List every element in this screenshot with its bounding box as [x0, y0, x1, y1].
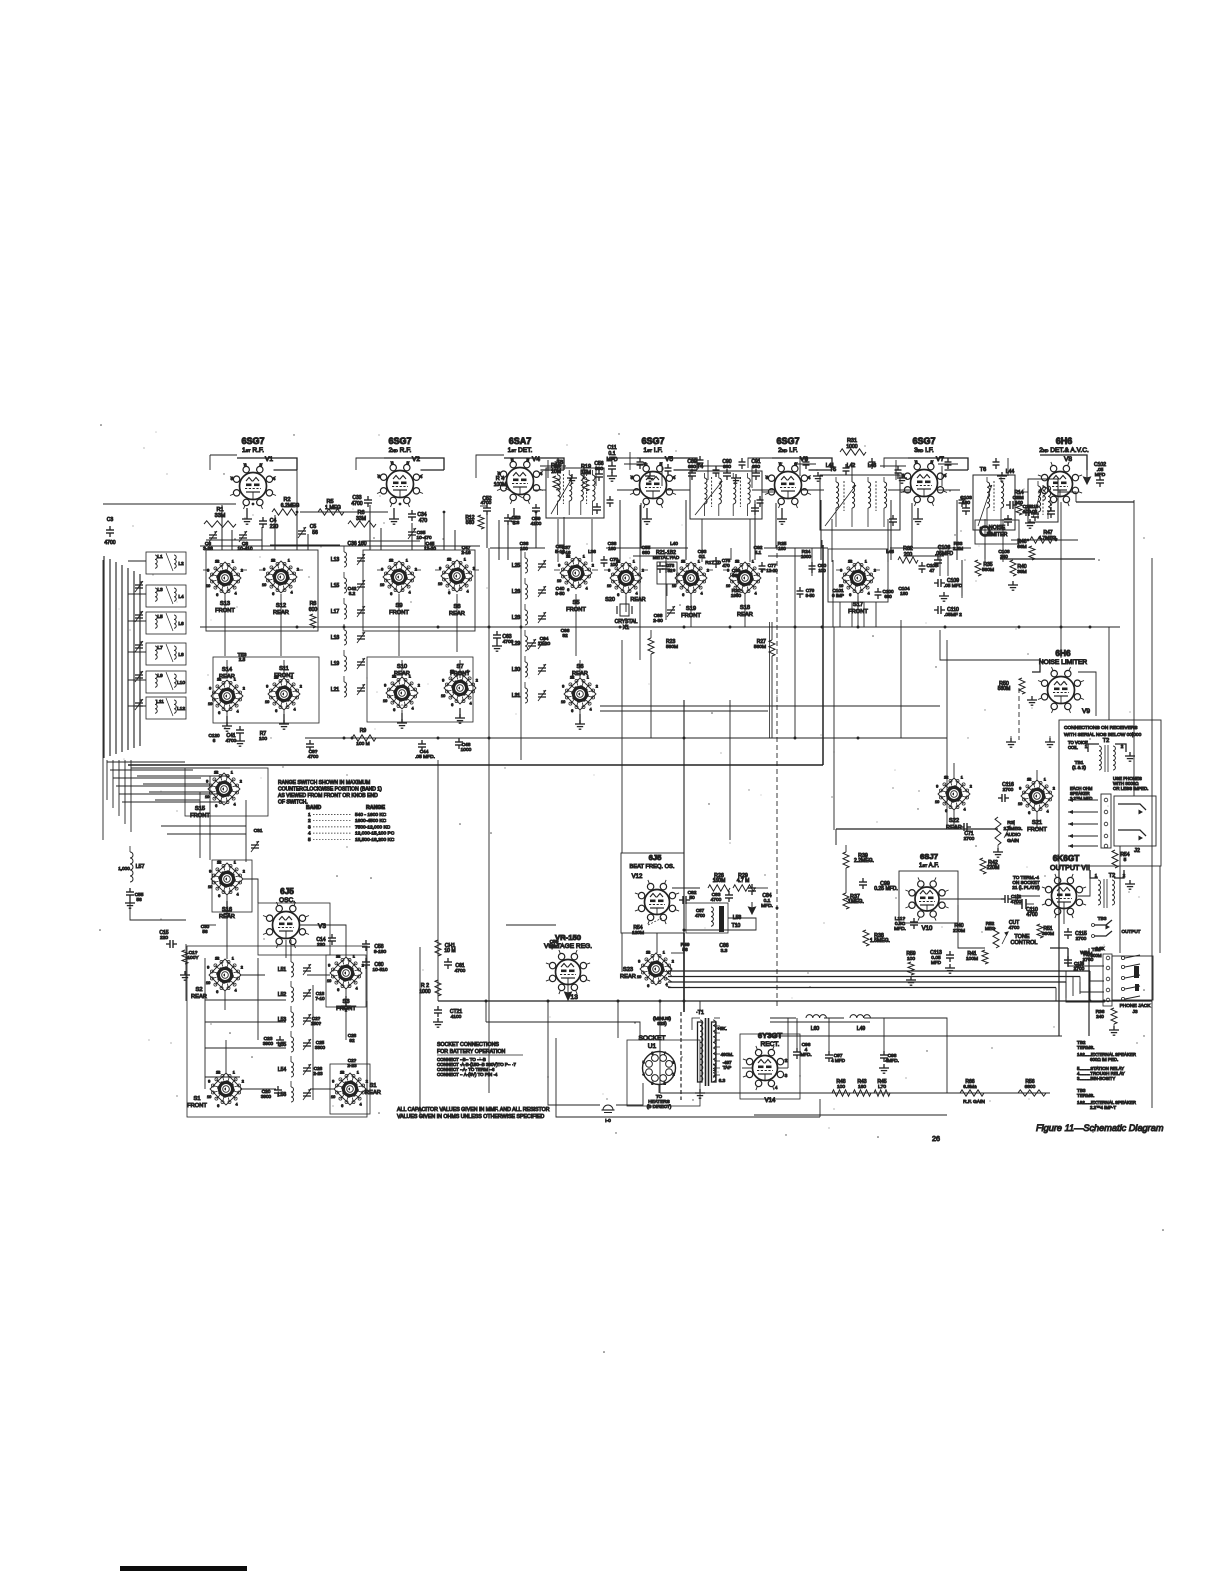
inductor pair L5 L6 [146, 612, 186, 634]
svg-text:S2: S2 [196, 987, 203, 993]
capacitor C15 220 [159, 930, 177, 948]
svg-text:2: 2 [1121, 744, 1124, 749]
svg-text:TERMS.: TERMS. [1077, 1093, 1094, 1098]
wire top rail [210, 455, 908, 478]
svg-text:56: 56 [682, 947, 688, 953]
capacitor C36 180 [347, 541, 366, 547]
capacitor C3 4700 [104, 517, 115, 546]
inductor labels L41 L42 L43 [826, 463, 877, 469]
svg-text:MFD.: MFD. [894, 926, 906, 932]
capacitor C97 4MFD [825, 1051, 846, 1063]
svg-text:L4: L4 [178, 594, 184, 600]
svg-text:BEAT FREQ. OS.: BEAT FREQ. OS. [630, 864, 675, 870]
capacitor C14 220 [316, 934, 336, 948]
svg-text:L1: L1 [157, 554, 163, 560]
svg-text:8: 8 [272, 558, 274, 562]
svg-text:0 IMP: 0 IMP [832, 593, 844, 598]
svg-text:CONTROL: CONTROL [1011, 940, 1038, 946]
svg-text:L11: L11 [156, 699, 164, 705]
svg-text:6: 6 [216, 990, 218, 994]
coil box RF stage 2 [363, 550, 475, 631]
svg-text:L25: L25 [512, 563, 521, 569]
wire AVC line [1011, 539, 1078, 542]
svg-text:FRONT: FRONT [187, 1103, 207, 1109]
capacitor C113 0.05 [930, 950, 955, 973]
capacitor trimmer near L52 [303, 989, 311, 1000]
svg-text:100: 100 [907, 956, 915, 962]
resistor R56 6800 [1018, 1079, 1046, 1096]
svg-text:6: 6 [651, 1052, 653, 1056]
svg-text:8: 8 [682, 559, 684, 563]
svg-text:MFD: MFD [931, 960, 942, 965]
resistor R66 6.8M [960, 1079, 984, 1096]
capacitor C106 .05MFD [934, 545, 953, 567]
resistor R51 390M [1037, 924, 1054, 938]
wire plate loop V5 [637, 458, 697, 470]
svg-text:9: 9 [207, 965, 209, 969]
svg-text:10: 10 [383, 699, 387, 703]
resistor R38 1.5MEG [863, 930, 890, 946]
rotary switch wafer S23 REAR [620, 950, 674, 988]
svg-text:9: 9 [207, 568, 209, 572]
svg-text:8: 8 [849, 559, 851, 563]
svg-text:MFD.: MFD. [800, 1052, 811, 1057]
capacitor trimmer near L31 [538, 690, 546, 701]
svg-text:8: 8 [736, 559, 738, 563]
svg-text:8.2: 8.2 [349, 591, 356, 596]
capacitor C28 92 [348, 1033, 357, 1043]
output transformer T2 [1090, 870, 1135, 908]
transformer T2 old connections [1068, 738, 1135, 772]
svg-text:2: 2 [785, 1058, 788, 1063]
svg-text:I·0: I·0 [605, 1118, 611, 1124]
svg-text:3: 3 [651, 1082, 653, 1086]
svg-text:PHONE JACK: PHONE JACK [1120, 1003, 1152, 1009]
svg-text:TAP: TAP [723, 1065, 732, 1070]
svg-text:2.2MEG.: 2.2MEG. [854, 858, 874, 864]
svg-text:1: 1 [232, 956, 234, 960]
IF transformer T7 [1028, 479, 1058, 522]
rotary switch wafer S9 FRONT [380, 558, 417, 616]
svg-text:8: 8 [216, 559, 218, 563]
capacitor C64 12-20 [528, 636, 550, 650]
wire S21 S22 drops [954, 763, 1037, 829]
capacitor C25 3300 [315, 1040, 326, 1050]
svg-text:220: 220 [270, 524, 279, 530]
capacitor C63 4700 [492, 631, 514, 651]
svg-text:V5: V5 [665, 456, 673, 463]
label to term 4 socket [1012, 875, 1040, 890]
wire B-minus bus [438, 1000, 1152, 1002]
svg-text:2: 2 [243, 869, 245, 873]
svg-text:L10: L10 [177, 680, 185, 686]
svg-text:1: 1 [231, 770, 233, 774]
svg-text:100: 100 [1015, 500, 1023, 505]
svg-text:VALUES GIVEN IN OHMS UNLESS O: VALUES GIVEN IN OHMS UNLESS OTHERWISE SP… [397, 1114, 544, 1120]
svg-text:CONNECT ·· A·(6V) TO PIN ·4: CONNECT ·· A·(6V) TO PIN ·4 [437, 1072, 498, 1077]
rotary switch wafer S7 FRONT [441, 664, 478, 707]
rotary switch wafer S16 REAR [208, 860, 245, 920]
svg-text:4700: 4700 [455, 968, 466, 974]
svg-text:160: 160 [858, 1084, 866, 1090]
ground [397, 713, 407, 728]
svg-text:3: 3 [930, 459, 933, 464]
svg-text:6: 6 [341, 1104, 343, 1108]
svg-text:V2: V2 [412, 456, 420, 463]
capacitor C53 5.6 [504, 514, 521, 526]
resistor R2 6.2MEG [272, 497, 299, 515]
resistor R41 100M [966, 950, 988, 964]
resistor R26 150M [708, 873, 730, 891]
rotary switch wafer S17 FRONT [839, 559, 876, 615]
noise limiter switch rotor [980, 527, 991, 560]
svg-text:600: 600 [309, 607, 318, 613]
svg-text:2: 2 [300, 684, 302, 688]
pilot lamp I1 [602, 1105, 615, 1124]
svg-text:6J5: 6J5 [280, 887, 294, 896]
svg-text:6: 6 [571, 709, 573, 713]
resistor R46 66M [1017, 539, 1035, 560]
capacitor C121 4100 [433, 1006, 462, 1027]
svg-text:SOCKET: SOCKET [638, 1035, 665, 1042]
svg-text:6: 6 [451, 703, 453, 707]
svg-text:7: 7 [664, 1052, 666, 1056]
svg-text:1000: 1000 [419, 989, 430, 995]
svg-text:26: 26 [932, 1135, 940, 1143]
svg-text:9: 9 [206, 779, 208, 783]
svg-text:2: 2 [596, 684, 598, 688]
capacitor C55 below L57 [125, 888, 144, 908]
svg-text:8: 8 [218, 860, 220, 864]
resistor R31 1000 [840, 438, 866, 455]
svg-text:2: 2 [418, 683, 420, 687]
tube V6 6SG7 [765, 436, 811, 508]
svg-text:923): 923) [657, 1021, 667, 1026]
svg-text:10M: 10M [551, 469, 561, 475]
svg-text:4: 4 [420, 474, 423, 479]
capacitor C82 50 [679, 890, 697, 904]
svg-text:9: 9 [384, 683, 386, 687]
capacitor trimmer near L54 [303, 1064, 311, 1075]
resistor R37 1MEG [843, 893, 864, 909]
capacitor C33 4700 [351, 495, 372, 507]
svg-text:33M: 33M [215, 513, 226, 519]
svg-text:10: 10 [726, 584, 730, 588]
rotary switch wafer S1 FRONT [187, 1070, 244, 1109]
svg-text:680: 680 [732, 573, 740, 578]
svg-text:5: 5 [642, 1060, 644, 1064]
inductor pair L9 L10 [146, 671, 186, 693]
capacitor C114 100 [1006, 495, 1024, 509]
note range switch [278, 780, 382, 806]
svg-text:9: 9 [209, 869, 211, 873]
inductor L44 [1006, 469, 1046, 500]
svg-text:9: 9 [328, 963, 330, 967]
inductor L17 [331, 598, 347, 619]
wire output stage [1016, 878, 1090, 924]
svg-text:4700: 4700 [104, 540, 115, 546]
IF transformer T6 [973, 467, 1015, 530]
rotary switch wafer S1 REAR [331, 1070, 381, 1108]
resistor R9 100M [352, 728, 376, 747]
svg-text:6J5: 6J5 [649, 853, 663, 862]
wire V12 links [672, 879, 768, 1010]
inductor pair L3 L4 [146, 585, 186, 607]
svg-text:2: 2 [874, 568, 876, 572]
capacitor C117 0.5MFD [894, 916, 918, 932]
svg-text:5: 5 [631, 475, 634, 480]
svg-text:3.3: 3.3 [721, 948, 728, 954]
svg-text:2-30: 2-30 [653, 618, 663, 624]
svg-text:6.8M±: 6.8M± [963, 1084, 977, 1090]
capacitor C41 4700 [226, 726, 245, 746]
inductor L30 [512, 656, 528, 677]
box S17 [828, 549, 888, 602]
svg-text:8: 8 [216, 956, 218, 960]
svg-text:470: 470 [419, 518, 428, 524]
tube V8 6H6 2nd det [1038, 436, 1089, 506]
svg-text:3: 3 [406, 460, 409, 465]
svg-text:56: 56 [202, 929, 208, 934]
rotary switch wafer S6 REAR [561, 664, 598, 713]
svg-text:10: 10 [438, 582, 442, 586]
svg-text:82: 82 [668, 568, 673, 573]
svg-text:56: 56 [312, 530, 318, 536]
ground left of connections box [1006, 736, 1055, 747]
wire bundle terminations [666, 962, 1090, 998]
svg-text:1: 1 [633, 559, 635, 563]
wire tone bus [836, 828, 998, 830]
svg-text:4700: 4700 [351, 501, 362, 507]
svg-text:6SG7: 6SG7 [641, 436, 664, 446]
label TE3 [238, 652, 247, 662]
wire plate loop V1 [237, 458, 297, 470]
tube V9 6H6 noise limiter [1038, 649, 1090, 715]
svg-text:L7: L7 [157, 645, 163, 651]
svg-text:12-20: 12-20 [766, 568, 778, 573]
svg-text:BAND: BAND [306, 805, 321, 811]
svg-text:390M: 390M [1042, 931, 1054, 937]
svg-text:RANGE: RANGE [366, 805, 386, 811]
svg-text:L57: L57 [136, 864, 145, 870]
wire bus y1036 [770, 1035, 1062, 1037]
resistor R2 1000 [419, 980, 441, 996]
shield dashed T1 [680, 1012, 682, 1100]
svg-text:200: 200 [904, 552, 913, 558]
svg-text:R.F. GAIN: R.F. GAIN [963, 1099, 985, 1105]
capacitor trimmer near L13 [357, 554, 365, 565]
label TB1 terms [1070, 760, 1093, 801]
svg-text:6: 6 [218, 711, 220, 715]
capacitor C20 3900 [261, 1086, 282, 1099]
svg-text:2: 2 [664, 1082, 666, 1086]
svg-text:4700: 4700 [226, 738, 237, 744]
svg-text:4: 4 [308, 831, 311, 837]
svg-text:V4: V4 [532, 456, 540, 463]
svg-text:540 - 1600 KC: 540 - 1600 KC [355, 812, 387, 818]
wire plate loop V7 [908, 458, 968, 470]
rotary switch wafer S12 REAR [262, 558, 299, 616]
svg-text:ALL CAPACITOR VALUES GIVEN IN: ALL CAPACITOR VALUES GIVEN IN MMF. AND A… [397, 1107, 550, 1113]
svg-text:6: 6 [275, 709, 277, 713]
svg-text:FOR BATTERY OPERATION: FOR BATTERY OPERATION [437, 1049, 506, 1055]
resistor R29 4.7M [733, 873, 755, 891]
svg-text:1.5MEG.: 1.5MEG. [870, 938, 890, 944]
svg-text:560: 560 [466, 520, 475, 526]
phone jack J3 [1112, 955, 1153, 1015]
svg-text:8: 8 [1028, 777, 1030, 781]
svg-text:3: 3 [785, 1073, 788, 1078]
svg-text:L17: L17 [331, 609, 340, 615]
relay contacts TB3 [1092, 916, 1141, 951]
resistor R5 1MEG [318, 499, 344, 515]
svg-text:.05MF 2: .05MF 2 [944, 612, 962, 618]
svg-text:560M: 560M [666, 644, 678, 650]
resistor R12 560 [465, 515, 484, 529]
svg-text:.05 MFD: .05 MFD [944, 583, 963, 589]
terminal strip TB2 [1050, 947, 1112, 1006]
svg-text:1ST I.F.: 1ST I.F. [643, 447, 662, 454]
tube V12 6J5 beat freq oscillator [621, 853, 684, 933]
svg-text:680: 680 [884, 594, 892, 599]
capacitor C31 trimmer [251, 828, 263, 852]
rotary switch wafer S11 FRONT [265, 666, 302, 713]
capacitor C22 150 [311, 1016, 322, 1026]
svg-text:680: 680 [642, 550, 650, 555]
svg-text:2.2™4 IMP·T: 2.2™4 IMP·T [1090, 1105, 1116, 1110]
svg-text:1: 1 [357, 1070, 359, 1074]
svg-text:6: 6 [567, 588, 569, 592]
table band range [306, 805, 395, 843]
svg-text:3RD I.F.: 3RD I.F. [914, 447, 934, 454]
ground cathode V1 [242, 508, 252, 524]
svg-text:56: 56 [136, 897, 142, 903]
tube V13 VR-150 voltage regulator [544, 933, 592, 1001]
svg-text:10: 10 [265, 700, 269, 704]
rotary switch wafer S15 FRONT [190, 770, 242, 819]
svg-text:2.5: 2.5 [239, 657, 246, 662]
bottom rule mark [120, 1566, 247, 1571]
svg-text:10: 10 [607, 584, 611, 588]
capacitor C102 .05 MFD [1094, 462, 1106, 487]
ground [455, 708, 465, 723]
svg-text:T2: T2 [1103, 738, 1109, 744]
crystal X1 [615, 604, 638, 631]
svg-text:100: 100 [259, 736, 267, 742]
svg-text:10: 10 [206, 981, 210, 985]
box S3 coil [326, 955, 366, 1007]
svg-text:(B DIRECT): (B DIRECT) [647, 1104, 672, 1109]
resistor R39 2.2MEG [843, 852, 874, 868]
inductor L29 [512, 630, 528, 651]
svg-text:4: 4 [673, 475, 676, 480]
svg-text:10: 10 [207, 1095, 211, 1099]
svg-text:6H6: 6H6 [1056, 436, 1073, 446]
svg-text:6SJ7: 6SJ7 [920, 852, 938, 861]
svg-text:10: 10 [1018, 802, 1022, 806]
svg-text:OUTPUT VII: OUTPUT VII [1050, 864, 1090, 872]
svg-text:RECT.: RECT. [760, 1041, 779, 1048]
note capacitor values [397, 1107, 550, 1120]
capacitor C35 10-470 [408, 528, 432, 541]
potentiometer R31 audio gain [995, 817, 1023, 845]
IF transformer T5 [820, 467, 900, 530]
rotary switch wafer S2 REAR [191, 956, 243, 1000]
inductor L15 [331, 572, 347, 593]
wire noise limiter loops [640, 505, 1096, 716]
svg-text:240: 240 [1096, 1014, 1104, 1019]
svg-text:R9: R9 [360, 728, 367, 734]
wire right risers extra [657, 540, 1109, 1012]
capacitor C6 3-28 [203, 531, 217, 552]
wire audio bundle [668, 971, 1090, 1001]
inductor pair L1 L2 [146, 552, 186, 574]
svg-text:2ND I.F.: 2ND I.F. [778, 447, 798, 454]
svg-text:8: 8 [672, 1060, 674, 1064]
capacitor C83 4700 [711, 891, 733, 903]
wire loop x833 [833, 560, 947, 829]
tube V7 6SG7 [901, 436, 947, 506]
svg-text:4700: 4700 [695, 913, 705, 918]
svg-text:2ND R.F.: 2ND R.F. [389, 447, 412, 454]
svg-text:6.2MEG: 6.2MEG [281, 503, 300, 509]
svg-text:3900: 3900 [263, 1041, 274, 1046]
ground cathode V6 [777, 508, 787, 524]
svg-text:2: 2 [672, 959, 674, 963]
resistor R47 AVC 4.7MEG [1030, 530, 1058, 543]
svg-text:10: 10 [205, 795, 209, 799]
wire VR area [300, 925, 572, 1001]
svg-text:1: 1 [288, 558, 290, 562]
resistor R50 560M [998, 678, 1025, 694]
svg-text:9: 9 [263, 567, 265, 571]
wire osc area nest [130, 879, 346, 1001]
svg-text:2: 2 [241, 965, 243, 969]
svg-text:1: 1 [961, 775, 963, 779]
resistor R40 270M [953, 923, 965, 934]
ground V9 left [1027, 696, 1037, 705]
svg-text:9: 9 [266, 684, 268, 688]
resistor R27 560M [754, 622, 775, 738]
svg-text:COUNTERCLOCKWISE POSITION (BAN: COUNTERCLOCKWISE POSITION (BAND 1) [278, 787, 382, 793]
svg-text:L2: L2 [178, 561, 184, 567]
svg-text:NOISE LIMITER: NOISE LIMITER [1039, 659, 1088, 666]
svg-text:600Ω IM PED.: 600Ω IM PED. [1090, 1057, 1118, 1062]
svg-text:REAR: REAR [620, 974, 636, 980]
svg-text:1: 1 [698, 559, 700, 563]
socket U1 [638, 1035, 675, 1093]
svg-text:120M: 120M [632, 930, 644, 936]
box connections on receivers [1059, 720, 1161, 866]
label RF gain [963, 1099, 985, 1105]
capacitor C5 56 [298, 524, 318, 538]
svg-text:180: 180 [900, 591, 908, 596]
capacitor trimmer near L17 [357, 606, 365, 617]
svg-text:2: 2 [476, 678, 478, 682]
svg-text:6SG7: 6SG7 [912, 436, 935, 446]
svg-text:100: 100 [837, 1084, 845, 1090]
ground cathode V2 [389, 508, 399, 524]
svg-text:9: 9 [638, 959, 640, 963]
svg-text:J3: J3 [1132, 1009, 1137, 1015]
svg-text:L19: L19 [331, 661, 340, 667]
wire gang linkage dashed [777, 545, 1019, 1008]
svg-text:L51: L51 [278, 967, 287, 973]
wire nest RF stage V1 [206, 503, 340, 550]
svg-text:T6: T6 [980, 467, 986, 473]
wire nest det stage V4 [480, 490, 564, 560]
svg-text:4700: 4700 [711, 897, 722, 903]
